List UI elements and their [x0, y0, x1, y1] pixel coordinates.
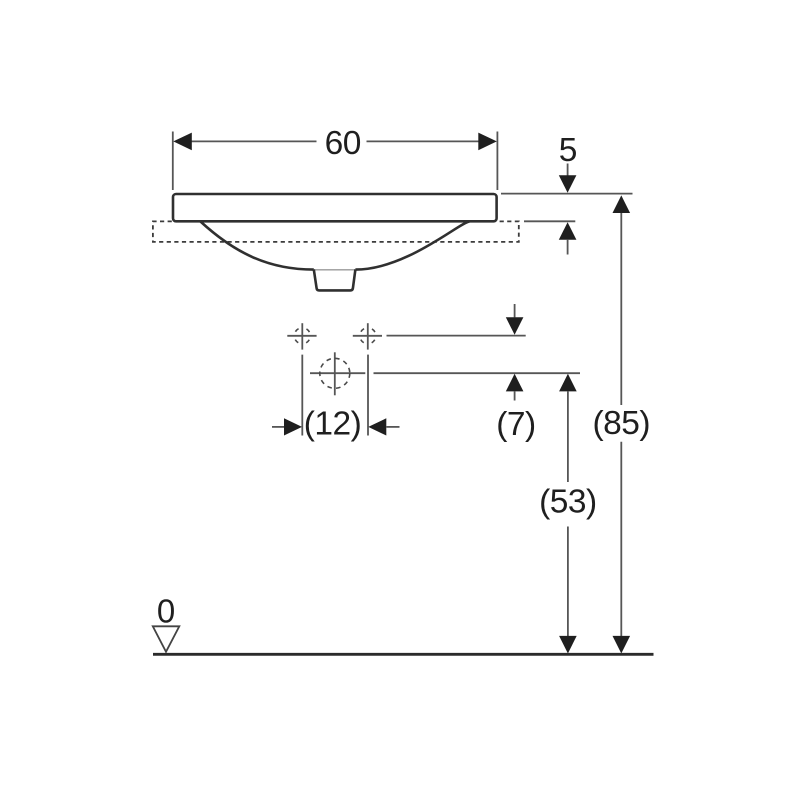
- dimension 7 down arrowhead: [506, 317, 524, 335]
- dimension 53 line upper segment: [567, 391, 569, 482]
- dimension 60 extension line left: [172, 132, 174, 191]
- svg-text:(85): (85): [593, 405, 651, 442]
- dimension 12 right stem: [386, 426, 399, 428]
- dimension 60 arrowhead left: [173, 133, 192, 151]
- dimension 5 bottom extension line: [524, 220, 575, 222]
- dimension 53 label: [539, 483, 597, 520]
- dimension 60 line left segment: [192, 140, 317, 142]
- dimension 12 label: [304, 406, 362, 443]
- dimension 53 line lower segment: [567, 527, 569, 638]
- tap hole symbol right: [353, 323, 382, 349]
- dimension 12 right arrowhead: [368, 418, 386, 435]
- dimension 7 label: [496, 406, 535, 443]
- dimension 53 down arrowhead: [559, 636, 577, 654]
- dimension 60 extension line right: [496, 132, 498, 191]
- svg-text:(53): (53): [539, 483, 597, 520]
- washbasin rim: [173, 194, 497, 221]
- dimension 60 label: [325, 125, 361, 162]
- svg-text:0: 0: [157, 592, 175, 629]
- floor baseline: [153, 653, 654, 656]
- drain recess top line: [314, 269, 356, 271]
- dimension 85 line lower segment: [620, 442, 622, 637]
- drain level extension line: [374, 372, 581, 374]
- tap hole level extension line: [387, 335, 526, 337]
- dimension 12 extension line right: [367, 355, 369, 436]
- dimension 5 upper stem: [567, 164, 569, 177]
- drain recess box: [314, 269, 356, 290]
- washbasin bowl right arc: [355, 222, 469, 270]
- dimension 7 lower stem: [514, 391, 516, 400]
- zero datum label: [157, 592, 175, 629]
- dimension 85 line upper segment: [620, 213, 622, 405]
- dimension 60 line right segment: [367, 140, 479, 142]
- dimension 5 top extension line: [501, 193, 633, 195]
- dimension 85 up arrowhead: [613, 195, 631, 213]
- tap hole symbol left: [287, 323, 316, 349]
- dimension 53 up arrowhead: [559, 374, 577, 392]
- dimension 7 upper stem: [514, 304, 516, 317]
- dimension 85 down arrowhead: [613, 636, 631, 654]
- drain hole symbol: [310, 352, 365, 395]
- zero datum triangle: [153, 626, 180, 652]
- dimension 12 extension line left: [301, 355, 303, 436]
- dimension 7 up arrowhead: [506, 374, 524, 392]
- dimension 5 label: [559, 132, 577, 169]
- svg-text:(7): (7): [496, 406, 535, 443]
- svg-text:60: 60: [325, 125, 361, 162]
- dimension 5 lower stem: [567, 240, 569, 255]
- dimension 12 left arrowhead: [284, 418, 302, 435]
- dimension 5 up arrowhead: [559, 222, 577, 240]
- installation cutout dashed rectangle: [153, 221, 519, 242]
- dimension 12 left stem: [272, 426, 285, 428]
- dimension 60 arrowhead right: [478, 133, 497, 151]
- svg-text:(12): (12): [304, 406, 362, 443]
- svg-text:5: 5: [559, 132, 577, 169]
- dimension 5 down arrowhead: [559, 175, 577, 193]
- dimension 85 label: [593, 405, 651, 442]
- washbasin bowl left arc: [201, 222, 314, 270]
